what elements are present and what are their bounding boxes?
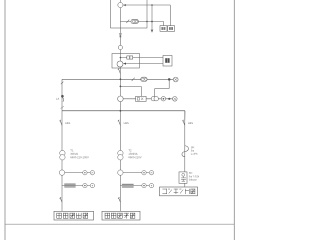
- svg-text:LBS: LBS: [65, 121, 70, 125]
- svg-text:T2: T2: [128, 148, 132, 152]
- svg-text:LBS: LBS: [188, 121, 193, 125]
- svg-text:T1: T1: [70, 148, 74, 152]
- svg-text:LBS: LBS: [124, 121, 129, 125]
- svg-text:LA: LA: [56, 97, 59, 101]
- svg-text:6600-210-105V: 6600-210-105V: [70, 155, 89, 159]
- svg-text:50kvar: 50kvar: [189, 178, 197, 182]
- svg-text:6600-210V: 6600-210V: [128, 155, 141, 159]
- svg-text:L=6%: L=6%: [191, 152, 198, 156]
